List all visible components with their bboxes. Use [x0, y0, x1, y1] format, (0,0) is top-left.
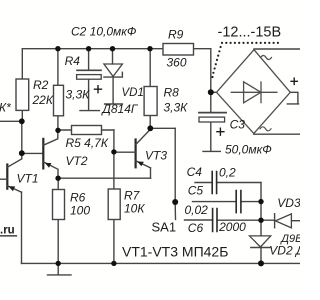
junction node R4/R5/VT2 collector [55, 128, 60, 133]
wire C6 row [185, 219, 275, 221]
wire VT1 emitter drop [21, 192, 23, 263]
svg-text:C4: C4 [187, 165, 203, 179]
svg-text:К*: К* [0, 101, 11, 115]
junction node R2 bottom / input stub [19, 118, 25, 124]
wire bridge AC bottom [254, 133, 300, 135]
wire VD3 out to edge [291, 220, 300, 222]
junction node C5 / right rail [258, 199, 263, 204]
wire bridge node link [211, 91, 217, 93]
watermark .ru [0, 225, 17, 237]
svg-text:С6: С6 [188, 221, 204, 235]
resistor R4 [54, 54, 91, 116]
transistor VT3 [114, 129, 167, 167]
wire R2 bottom to VT1 collector node [21, 121, 23, 153]
resistor R7 [108, 189, 145, 220]
bridge rectifier [217, 50, 291, 134]
junction node R5 right / VT3 base [111, 149, 116, 154]
svg-text:.ru: .ru [0, 225, 15, 237]
bridge AC mark bottom ~ [260, 127, 271, 131]
svg-text:22К: 22К [32, 93, 54, 107]
transistor VT2 [43, 130, 88, 178]
wire C4 row right to right rail [217, 182, 261, 184]
transistor VT1 [0, 153, 39, 192]
junction node top rail / VD1 [110, 46, 115, 51]
wire bottom rail [22, 262, 301, 264]
zener diode VD1 Д814Г [100, 64, 143, 116]
junction node bridge minus / C3 [208, 89, 214, 95]
svg-text:Д814Г: Д814Г [100, 102, 138, 116]
svg-text:0,02: 0,02 [185, 203, 209, 217]
svg-text:VT1: VT1 [17, 172, 39, 186]
svg-text:R7: R7 [124, 189, 141, 203]
svg-text:R5 4,7К: R5 4,7К [66, 136, 109, 150]
capacitor C5 [185, 184, 241, 218]
svg-text:С2 10,0мкФ: С2 10,0мкФ [71, 24, 137, 38]
svg-text:R8: R8 [164, 86, 180, 100]
svg-text:100: 100 [70, 204, 90, 218]
svg-text:3,3К: 3,3К [66, 87, 91, 101]
svg-text:VT2: VT2 [66, 154, 88, 168]
resistor R6 [53, 190, 91, 220]
wire VD2 to bottom rail [260, 248, 262, 264]
wire C3 bottom lead [210, 122, 212, 151]
wire R4 branch [57, 49, 59, 131]
svg-text:VD2 Д: VD2 Д [269, 244, 300, 258]
capacitor C6 [188, 209, 246, 236]
svg-text:C5: C5 [188, 184, 204, 198]
svg-text:R9: R9 [168, 27, 184, 41]
svg-text:VT3: VT3 [145, 149, 167, 163]
junction node VD2 / ground rail [258, 260, 264, 266]
capacitor C3 [199, 113, 272, 157]
junction node C6 / VD3 / right rail [258, 218, 263, 223]
wire R8 node to SA1 rail [150, 127, 175, 129]
ground [48, 263, 72, 275]
wire top rail [22, 48, 211, 50]
junction node VT1 collector / VT2 base [19, 150, 25, 156]
svg-text:R2: R2 [33, 78, 49, 92]
diode VD3 [275, 196, 301, 228]
wire right rail down to VD2 [260, 183, 262, 236]
wire C2 bottom lead [80, 79, 99, 111]
svg-text:VD3: VD3 [277, 196, 300, 210]
capacitor C2 [71, 24, 137, 92]
resistor R2 [16, 78, 54, 110]
wire bridge AC top [254, 48, 300, 50]
svg-text:360: 360 [167, 56, 187, 70]
svg-text:SA1: SA1 [152, 220, 177, 235]
svg-text:50,0мкФ: 50,0мкФ [225, 143, 272, 157]
wire R5 row [58, 129, 114, 131]
wire VT2 base [22, 152, 43, 154]
svg-text:10К: 10К [124, 202, 145, 216]
junction node top rail / R8 [147, 46, 152, 51]
dotted leader line [211, 42, 279, 78]
switch SA1 [152, 205, 177, 235]
wire SA1 rail down [174, 128, 176, 200]
junction node R8/VT3 collector/SA1 [147, 125, 153, 131]
wire C5 row [193, 201, 262, 203]
bridge plus mark [291, 78, 297, 84]
wire R8 branch [149, 49, 151, 129]
wire C2 top lead [88, 49, 90, 71]
wire VT3 emitter drop [150, 168, 152, 178]
capacitor C4 [187, 165, 236, 194]
junction node SA1 contact [172, 199, 178, 205]
svg-text:С3: С3 [230, 118, 246, 132]
wire emitter bus VT2-VT3 [58, 177, 151, 179]
wire C4 row left [195, 182, 212, 184]
svg-text:VD1: VD1 [122, 87, 144, 99]
junction node top rail / R4 [55, 46, 60, 51]
junction node R7 / ground rail [111, 261, 116, 266]
resistor R5 [66, 126, 109, 151]
wire C3 top lead [210, 92, 212, 112]
svg-text:2000: 2000 [218, 220, 246, 234]
svg-text:0,2: 0,2 [219, 166, 236, 180]
wire left input stub node [0, 120, 22, 122]
svg-text:-12...-15В: -12...-15В [218, 24, 282, 40]
wire R5 right down through R7 to bottom rail [113, 130, 115, 263]
junction node R6 / ground rail [56, 261, 61, 266]
resistor R8 [144, 86, 188, 116]
wire VD1 bottom lead [112, 77, 114, 103]
wire bridge plus terminal [287, 92, 298, 104]
svg-text:R4: R4 [65, 54, 81, 68]
wire R6 branch [57, 178, 59, 263]
bridge AC mark top ~ [261, 56, 272, 60]
wire R9 right to bridge node [210, 49, 212, 93]
junction node VT2 emitter / R6 [55, 176, 60, 181]
wire R2 branch top [21, 49, 23, 122]
junction node top rail / C2 [86, 46, 91, 51]
svg-text:R6: R6 [70, 191, 86, 205]
svg-text:VT1-VT3 МП42Б: VT1-VT3 МП42Б [122, 243, 228, 259]
diode VD2 [250, 233, 305, 258]
resistor R9 [163, 27, 194, 69]
wire VD1 top lead [112, 49, 114, 64]
svg-text:3,3К: 3,3К [164, 101, 189, 115]
